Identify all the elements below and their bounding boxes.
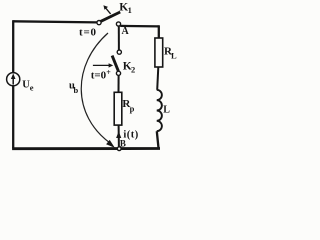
wire Rp to node B bbox=[118, 125, 120, 148]
inductor L bbox=[157, 90, 162, 131]
label t=0+ for K2 bbox=[91, 68, 112, 82]
svg-text:e: e bbox=[30, 83, 34, 93]
wire top-left segment bbox=[13, 21, 97, 22]
switch K2 bbox=[93, 50, 122, 75]
voltage source U_e bbox=[7, 73, 20, 86]
label K2 bbox=[123, 60, 135, 74]
voltage arc ub bbox=[81, 33, 110, 143]
wire left vertical upper bbox=[12, 20, 14, 72]
wire bottom bbox=[12, 147, 160, 150]
svg-text:2: 2 bbox=[131, 65, 135, 75]
current arrow i(t) bbox=[116, 131, 121, 138]
wire node A to top-right corner bbox=[120, 25, 159, 28]
svg-text:b: b bbox=[74, 85, 79, 95]
wire K2 to Rp bbox=[118, 75, 120, 92]
wire right vertical to RL bbox=[158, 25, 160, 38]
arrowhead of ub arc bbox=[106, 140, 115, 148]
svg-text:B: B bbox=[120, 138, 126, 148]
svg-text:+: + bbox=[106, 68, 111, 77]
svg-text:L: L bbox=[171, 50, 177, 60]
svg-text:t=0: t=0 bbox=[91, 69, 107, 81]
resistor RL bbox=[155, 38, 163, 67]
svg-text:1: 1 bbox=[128, 5, 132, 15]
label K1 bbox=[119, 2, 132, 15]
switch K1 bbox=[97, 5, 121, 26]
svg-text:L: L bbox=[163, 105, 170, 116]
svg-text:p: p bbox=[130, 104, 135, 114]
label ub bbox=[69, 81, 79, 95]
node B bbox=[117, 138, 126, 150]
label RL bbox=[164, 45, 177, 60]
svg-text:A: A bbox=[122, 26, 130, 37]
label Rp bbox=[122, 98, 134, 113]
wire left vertical lower bbox=[12, 86, 14, 149]
label Ue bbox=[22, 79, 34, 92]
svg-text:t=0: t=0 bbox=[79, 26, 97, 38]
wire RL to L bbox=[157, 67, 158, 90]
wire L to bottom-right corner bbox=[157, 131, 159, 149]
wire node A down to K2 bbox=[118, 26, 120, 50]
resistor Rp bbox=[114, 92, 122, 125]
